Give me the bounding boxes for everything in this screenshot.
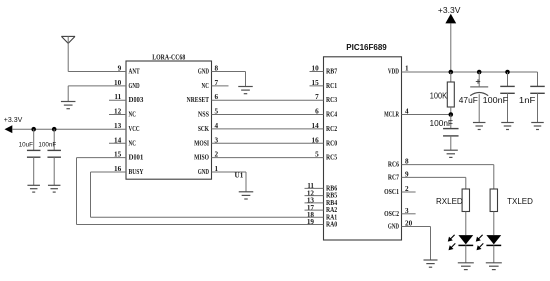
svg-text:100K: 100K bbox=[430, 92, 448, 101]
svg-text:U1: U1 bbox=[235, 171, 244, 179]
svg-text:BUSY: BUSY bbox=[129, 168, 144, 176]
svg-text:MCLR: MCLR bbox=[384, 111, 399, 119]
svg-text:47uF: 47uF bbox=[459, 96, 478, 105]
svg-text:1: 1 bbox=[405, 65, 409, 73]
svg-text:GND: GND bbox=[129, 82, 140, 90]
svg-text:MOSI: MOSI bbox=[194, 139, 209, 147]
svg-text:1nF: 1nF bbox=[519, 96, 536, 105]
svg-text:NRESET: NRESET bbox=[187, 96, 209, 104]
svg-text:100nF: 100nF bbox=[38, 141, 56, 148]
svg-text:ANT: ANT bbox=[129, 68, 140, 76]
svg-text:RC4: RC4 bbox=[326, 111, 337, 119]
svg-text:100nF: 100nF bbox=[483, 96, 509, 105]
svg-text:PIC16F689: PIC16F689 bbox=[346, 43, 387, 52]
svg-text:GND: GND bbox=[388, 223, 399, 231]
svg-text:RXLED: RXLED bbox=[436, 197, 463, 206]
svg-text:TXLED: TXLED bbox=[507, 197, 533, 206]
svg-text:RC1: RC1 bbox=[326, 82, 337, 90]
svg-text:RC3: RC3 bbox=[326, 96, 337, 104]
svg-text:GND: GND bbox=[198, 168, 209, 176]
svg-text:RA0: RA0 bbox=[326, 221, 337, 229]
svg-text:VDD: VDD bbox=[388, 68, 399, 76]
svg-text:RC2: RC2 bbox=[326, 125, 337, 133]
svg-text:DI03: DI03 bbox=[129, 96, 144, 104]
svg-text:+3.3V: +3.3V bbox=[438, 6, 461, 15]
svg-text:100nF: 100nF bbox=[430, 119, 454, 128]
svg-text:10uF: 10uF bbox=[19, 141, 34, 148]
svg-text:RB7: RB7 bbox=[326, 68, 337, 76]
svg-text:NSS: NSS bbox=[198, 111, 209, 119]
svg-text:SCK: SCK bbox=[198, 125, 209, 133]
svg-text:OSC1: OSC1 bbox=[384, 188, 399, 196]
svg-text:DI01: DI01 bbox=[129, 154, 144, 162]
svg-text:RC0: RC0 bbox=[326, 139, 337, 147]
svg-text:RC6: RC6 bbox=[388, 161, 399, 169]
svg-text:VCC: VCC bbox=[129, 125, 140, 133]
svg-text:GND: GND bbox=[198, 68, 209, 76]
svg-text:+3.3V: +3.3V bbox=[4, 117, 23, 124]
svg-text:NC: NC bbox=[129, 111, 136, 119]
svg-text:LORA-CC68: LORA-CC68 bbox=[152, 54, 185, 62]
svg-text:NC: NC bbox=[202, 82, 209, 90]
svg-text:MISO: MISO bbox=[194, 154, 209, 162]
svg-text:NC: NC bbox=[129, 139, 136, 147]
svg-text:OSC2: OSC2 bbox=[384, 210, 399, 218]
svg-text:RC7: RC7 bbox=[388, 173, 399, 181]
svg-text:RC5: RC5 bbox=[326, 154, 337, 162]
